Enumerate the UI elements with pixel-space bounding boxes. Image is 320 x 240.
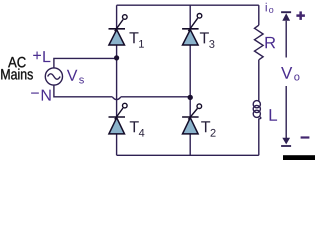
- label R: [265, 37, 275, 48]
- resistor R: [255, 25, 264, 60]
- thyristor T4: [109, 103, 128, 134]
- inductor L: [253, 101, 261, 119]
- node junction dot on left leg (L terminal): [114, 55, 119, 60]
- wire left bridge leg (T1/T4 branch): [116, 5, 118, 155]
- wire right bridge leg (T3/T2 branch): [189, 5, 191, 155]
- label + (output positive): [296, 11, 305, 20]
- label T3: [200, 32, 215, 48]
- wire output branch middle segment: [258, 60, 260, 101]
- label L: [270, 109, 278, 121]
- wire phase (L) terminal: source top to left leg: [54, 58, 117, 67]
- thyristor T3: [182, 14, 202, 46]
- label Vo with subscript: [281, 67, 299, 81]
- label T2: [201, 121, 215, 136]
- label T1: [129, 32, 143, 47]
- AC source Vs: [45, 68, 62, 85]
- wire top bus from left bridge leg to output branch: [117, 4, 259, 6]
- label Vs with subscript: [67, 70, 84, 84]
- wire neutral (N) terminal: source bottom to right leg with hop over left leg: [54, 85, 112, 96]
- watermark black bar: [283, 155, 315, 160]
- thyristor T1: [109, 15, 128, 45]
- wire output branch upper segment: [258, 5, 260, 25]
- label T4: [130, 121, 145, 136]
- label +L (phase terminal): [33, 51, 50, 62]
- wire output branch lower segment: [258, 118, 260, 155]
- label AC Mains: [1, 57, 33, 80]
- label io with subscript: [266, 3, 274, 13]
- output voltage arrow Vo top (bar + up arrowhead): [281, 12, 291, 57]
- output voltage arrow Vo bottom (down arrowhead + bar): [281, 86, 291, 146]
- node junction dot on right leg (N terminal): [188, 95, 193, 100]
- wire bottom bus from left bridge leg to output branch: [117, 154, 259, 156]
- label −N (neutral terminal): [31, 90, 51, 101]
- label − (output negative): [301, 136, 310, 138]
- thyristor T2: [182, 104, 202, 134]
